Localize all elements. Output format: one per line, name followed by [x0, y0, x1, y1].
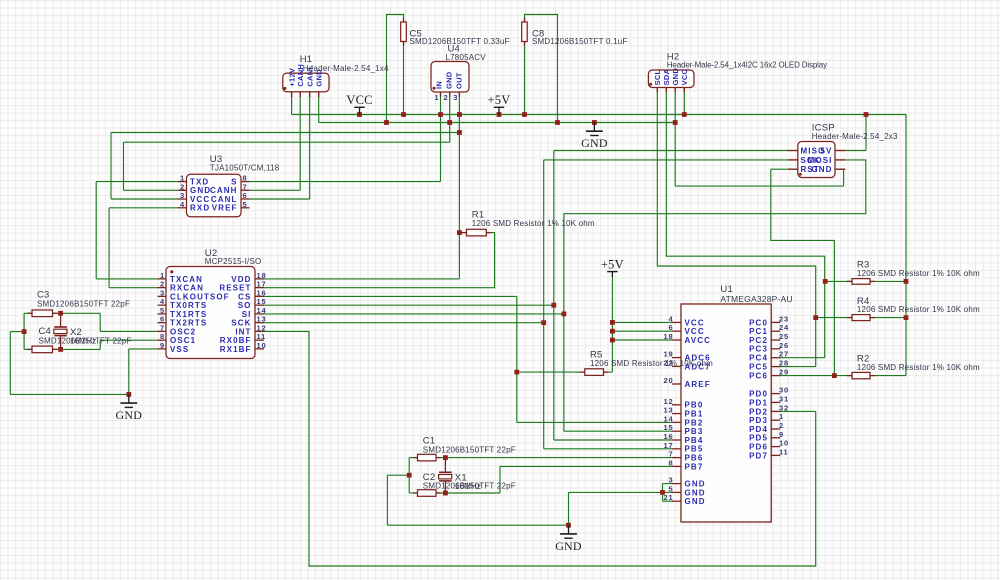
- capacitor C5: [401, 18, 407, 46]
- svg-text:12: 12: [664, 397, 674, 406]
- node H2 GND rail B: [673, 120, 678, 125]
- svg-text:15: 15: [664, 423, 674, 432]
- svg-text:26: 26: [779, 341, 789, 350]
- node SO row: [551, 303, 556, 308]
- svg-text:IN: IN: [435, 81, 444, 89]
- wire U1 GND pin tie: [663, 484, 673, 502]
- wire H2 VCC pin: [683, 92, 685, 115]
- label U4: [446, 44, 487, 63]
- svg-text:VSS: VSS: [170, 345, 189, 354]
- wire +5V stem to U1 VCC pins: [612, 276, 672, 372]
- power +5V symbol top: [488, 93, 511, 114]
- svg-text:1206 SMD Resistor 1% 10K ohm: 1206 SMD Resistor 1% 10K ohm: [857, 363, 980, 372]
- svg-text:8: 8: [669, 458, 674, 467]
- label C4: [39, 326, 132, 345]
- ground GND symbol bottom: [555, 525, 582, 553]
- svg-text:32: 32: [779, 403, 789, 412]
- svg-text:2: 2: [180, 182, 185, 191]
- svg-text:PC1: PC1: [749, 327, 768, 336]
- power +5V symbol at U1: [601, 257, 624, 277]
- wire R3 row: [825, 280, 906, 282]
- svg-text:7: 7: [243, 182, 248, 191]
- connector H1 Header-Male-2.54_1x4: [283, 64, 329, 97]
- label R5: [590, 350, 713, 369]
- node R5 left CS: [514, 370, 519, 375]
- svg-text:PB4: PB4: [685, 436, 704, 445]
- svg-text:PB5: PB5: [685, 445, 704, 454]
- svg-text:18: 18: [664, 332, 674, 341]
- svg-text:31: 31: [779, 394, 789, 403]
- svg-text:PB1: PB1: [685, 410, 704, 419]
- wire U2 SO / MISO row: [264, 304, 554, 306]
- node C8 loop rail B: [555, 120, 560, 125]
- wire X2 bottom to OSC1: [61, 340, 158, 349]
- node bottom GND: [566, 523, 571, 528]
- node C1 C2 left: [407, 473, 412, 478]
- svg-text:VCC: VCC: [680, 68, 689, 85]
- wire U2 SI / MOSI row: [264, 313, 564, 315]
- label C8: [532, 29, 627, 47]
- wire H1 CANL to U3: [250, 97, 310, 200]
- svg-text:SMD1206B150TFT 22pF: SMD1206B150TFT 22pF: [37, 299, 130, 308]
- node U4 OUT rail C: [457, 130, 462, 135]
- svg-text:3: 3: [180, 191, 185, 200]
- wire C3 right to node: [53, 312, 61, 314]
- svg-text:14: 14: [664, 414, 674, 423]
- node H2 VCC rail A: [682, 112, 687, 117]
- node C5 loop rail B: [384, 120, 389, 125]
- svg-text:19: 19: [664, 350, 674, 359]
- svg-text:30: 30: [779, 386, 789, 395]
- svg-text:TXCAN: TXCAN: [170, 275, 203, 284]
- capacitor C1: [413, 454, 441, 461]
- svg-text:PD2: PD2: [749, 407, 768, 416]
- connector H2 Header-Male-2.54_1x4 I2C OLED: [648, 68, 694, 93]
- node GND symbol rail B: [592, 120, 597, 125]
- capacitor C4: [28, 346, 58, 353]
- label H2: [667, 52, 827, 70]
- svg-text:18: 18: [257, 271, 267, 280]
- svg-text:SO: SO: [238, 301, 252, 310]
- svg-text:RX1BF: RX1BF: [220, 345, 252, 354]
- node VCC4: [610, 320, 615, 325]
- svg-text:VCC: VCC: [685, 327, 705, 336]
- svg-text:3: 3: [160, 288, 165, 297]
- svg-text:12: 12: [257, 323, 267, 332]
- svg-text:VREF: VREF: [212, 204, 238, 213]
- svg-text:23: 23: [779, 314, 789, 323]
- svg-text:15: 15: [257, 297, 267, 306]
- svg-text:TJA1050T/CM,118: TJA1050T/CM,118: [210, 163, 280, 172]
- svg-text:11: 11: [779, 447, 789, 456]
- svg-text:PD1: PD1: [749, 398, 768, 407]
- svg-text:5: 5: [669, 484, 674, 493]
- svg-text:25: 25: [779, 332, 789, 341]
- svg-text:1: 1: [180, 174, 185, 183]
- node X2 top: [58, 311, 63, 316]
- crystal X2: [54, 313, 67, 349]
- svg-text:GND: GND: [555, 539, 582, 553]
- svg-text:GND: GND: [115, 408, 142, 422]
- svg-text:RXCAN: RXCAN: [170, 284, 204, 293]
- node SCK row: [541, 320, 546, 325]
- wire H2 SCL to R4/PC5: [657, 92, 815, 367]
- node AVCC: [610, 338, 615, 343]
- wire U2 SCK row: [264, 322, 544, 324]
- svg-text:16: 16: [664, 432, 674, 441]
- wire R2 row / PC6: [780, 375, 906, 377]
- node +5V rail A: [497, 112, 502, 117]
- crystal X1: [439, 458, 452, 493]
- resistor R2: [847, 372, 875, 378]
- svg-text:CANL: CANL: [211, 195, 238, 204]
- wire U3 RXD to U2 RXCAN: [109, 208, 178, 288]
- wire R1 left stub: [459, 232, 466, 234]
- svg-text:OUT: OUT: [455, 72, 464, 89]
- svg-text:+5V: +5V: [488, 93, 511, 107]
- svg-text:TX1RTS: TX1RTS: [170, 310, 207, 319]
- svg-text:SCL: SCL: [653, 69, 662, 85]
- svg-text:+5V: +5V: [601, 257, 624, 271]
- resistor R3: [847, 279, 875, 285]
- svg-text:1206 SMD Resistor 1% 10K ohm: 1206 SMD Resistor 1% 10K ohm: [590, 359, 713, 368]
- node X1 bottom: [443, 491, 448, 496]
- svg-text:6: 6: [160, 315, 165, 324]
- svg-text:SMD1206B150TFT 22pF: SMD1206B150TFT 22pF: [423, 445, 516, 454]
- wire C8 top loop to GND rail: [525, 15, 558, 123]
- svg-text:PD6: PD6: [749, 443, 768, 452]
- svg-text:PC4: PC4: [749, 354, 768, 363]
- node R4 right: [904, 315, 909, 320]
- svg-text:CLKOUTSOF: CLKOUTSOF: [170, 292, 230, 301]
- svg-text:VDD: VDD: [231, 275, 251, 284]
- svg-text:28: 28: [779, 359, 789, 368]
- svg-text:11: 11: [257, 332, 267, 341]
- ground GND symbol top: [581, 123, 608, 151]
- label C2: [423, 472, 516, 491]
- node R3 right: [904, 279, 909, 284]
- svg-text:21: 21: [664, 493, 674, 502]
- connector ICSP Header-Male-2.54_2x3: [788, 142, 845, 178]
- label R1: [472, 210, 595, 229]
- wire H1 CANH to U3: [250, 97, 301, 191]
- svg-text:RXD: RXD: [190, 204, 210, 213]
- svg-text:GND: GND: [445, 71, 454, 89]
- svg-text:GND: GND: [685, 497, 706, 506]
- svg-text:PD5: PD5: [749, 434, 768, 443]
- svg-text:OSC1: OSC1: [170, 336, 196, 345]
- svg-text:PB3: PB3: [685, 427, 704, 436]
- svg-text:16: 16: [257, 288, 267, 297]
- capacitor C2: [413, 490, 441, 497]
- svg-text:VCC: VCC: [346, 93, 372, 107]
- node U4 GND rail B: [447, 120, 452, 125]
- node X2 bottom: [58, 347, 63, 352]
- svg-text:1: 1: [779, 412, 784, 421]
- svg-text:PD3: PD3: [749, 416, 768, 425]
- wire C8 bottom to rail A: [524, 42, 526, 115]
- wire ICSP MOSI net: [564, 160, 866, 431]
- svg-text:SDA: SDA: [662, 68, 671, 85]
- node VCC junction: [357, 112, 362, 117]
- wire GND riser to U1 GND pins: [569, 492, 663, 525]
- svg-text:16MHz: 16MHz: [455, 482, 481, 491]
- node ICSP 5V rail A: [864, 112, 869, 117]
- svg-text:1206 SMD Resistor 1% 10K ohm: 1206 SMD Resistor 1% 10K ohm: [857, 305, 980, 314]
- node R2 left: [832, 373, 837, 378]
- svg-text:6: 6: [669, 323, 674, 332]
- svg-text:PC0: PC0: [749, 318, 768, 327]
- svg-text:7: 7: [669, 450, 674, 459]
- svg-text:PB2: PB2: [685, 418, 704, 427]
- svg-text:S: S: [231, 178, 237, 187]
- label H1: [300, 54, 389, 73]
- svg-text:AVCC: AVCC: [685, 336, 711, 345]
- svg-text:27: 27: [779, 350, 789, 359]
- node C8 rail A: [522, 112, 527, 117]
- node U1 GND tie: [660, 490, 665, 495]
- label C1: [423, 436, 516, 455]
- svg-text:13: 13: [664, 406, 674, 415]
- wire X2 top to OSC2: [61, 313, 158, 331]
- svg-text:PB6: PB6: [685, 454, 704, 463]
- svg-text:SMD1206B150TFT 0.33uF: SMD1206B150TFT 0.33uF: [410, 37, 510, 46]
- svg-text:17: 17: [664, 441, 674, 450]
- svg-text:3: 3: [669, 476, 674, 485]
- svg-text:CANH: CANH: [210, 186, 238, 195]
- label R2: [857, 354, 980, 373]
- svg-text:GND: GND: [811, 165, 832, 174]
- svg-text:ATMEGA328P-AU: ATMEGA328P-AU: [720, 294, 792, 304]
- svg-text:CS: CS: [238, 292, 251, 301]
- svg-text:AREF: AREF: [685, 380, 711, 389]
- node U4 OUT rail A: [457, 112, 462, 117]
- svg-text:6: 6: [243, 191, 248, 200]
- wire C2 row to U1 PB7: [409, 466, 672, 493]
- wire GND rail B: [319, 97, 676, 123]
- svg-text:GND: GND: [671, 68, 680, 86]
- node C5 rail A: [401, 112, 406, 117]
- wire H2 GND pin / branch to ICSP GND: [675, 92, 845, 186]
- svg-text:L7805ACV: L7805ACV: [446, 53, 487, 62]
- label X1: [455, 473, 481, 492]
- svg-text:8: 8: [160, 332, 165, 341]
- svg-text:17: 17: [257, 280, 267, 289]
- svg-text:RX0BF: RX0BF: [220, 336, 252, 345]
- svg-text:Header-Male-2.54_1x4I2C 16x2 O: Header-Male-2.54_1x4I2C 16x2 OLED Displa…: [667, 60, 827, 69]
- wire U2 INT to U1 PD2: [264, 331, 816, 566]
- svg-text:1: 1: [160, 271, 165, 280]
- wire U2 VDD: [264, 278, 459, 280]
- svg-text:SMD1206B150TFT 0.1uF: SMD1206B150TFT 0.1uF: [532, 37, 627, 46]
- wire R4 row: [816, 317, 906, 319]
- label X2: [70, 327, 96, 345]
- wire ICSP RST to R2/PC6: [771, 169, 835, 375]
- wire +5V right vertical: [905, 115, 907, 376]
- node R4 left: [813, 315, 818, 320]
- node R1 left: [457, 230, 462, 235]
- wire U2 VSS to GND: [129, 349, 158, 395]
- svg-text:2: 2: [779, 421, 784, 430]
- ground GND symbol left: [115, 394, 142, 422]
- svg-text:PD4: PD4: [749, 425, 768, 434]
- svg-text:13: 13: [257, 315, 267, 324]
- svg-text:Header-Male-2.54_2x3: Header-Male-2.54_2x3: [812, 132, 898, 141]
- svg-text:VCC: VCC: [190, 195, 210, 204]
- svg-text:7: 7: [160, 323, 165, 332]
- svg-text:16MHz: 16MHz: [70, 336, 96, 345]
- wire U4 pin2 to GND rail: [449, 97, 451, 123]
- svg-text:PD7: PD7: [749, 451, 768, 460]
- capacitor C3: [28, 310, 58, 317]
- svg-text:9: 9: [160, 341, 165, 350]
- svg-text:PC2: PC2: [749, 336, 768, 345]
- capacitor C8: [522, 18, 528, 46]
- wire R1 right to U2 RESET: [264, 233, 495, 288]
- svg-text:10: 10: [257, 341, 267, 350]
- wire R5 right: [604, 371, 613, 373]
- svg-text:2: 2: [160, 280, 165, 289]
- power VCC symbol: [346, 93, 372, 114]
- svg-text:PB7: PB7: [685, 462, 704, 471]
- wire U2 CS to U1 PB2: [264, 296, 672, 422]
- svg-text:MCP2515-I/SO: MCP2515-I/SO: [205, 257, 262, 266]
- svg-text:10: 10: [779, 439, 789, 448]
- svg-text:SI: SI: [242, 310, 252, 319]
- svg-text:29: 29: [779, 368, 789, 377]
- wire C1 C2 left to GND: [387, 458, 568, 526]
- svg-text:SCK: SCK: [231, 319, 251, 328]
- resistor R4: [847, 315, 875, 321]
- regulator U4 L7805ACV: [431, 62, 469, 103]
- svg-text:TX0RTS: TX0RTS: [170, 301, 207, 310]
- svg-text:14: 14: [257, 306, 267, 315]
- svg-text:OSC2: OSC2: [170, 327, 196, 336]
- node VCC6: [610, 329, 615, 334]
- svg-text:5: 5: [243, 200, 248, 209]
- wire U3 S to VCC rail: [250, 97, 441, 182]
- IC U2 MCP2515 CAN controller: [158, 267, 267, 359]
- svg-text:INT: INT: [235, 327, 251, 336]
- label U1: [720, 284, 792, 304]
- wire C5 top loop to GND rail: [387, 15, 404, 123]
- wire C4 right to node: [53, 348, 61, 350]
- svg-text:PC5: PC5: [749, 363, 768, 372]
- svg-text:Header-Male-2.54_1x4: Header-Male-2.54_1x4: [303, 64, 389, 73]
- svg-text:VCC: VCC: [685, 318, 705, 327]
- wire ICSP 5V to rail A: [845, 115, 866, 151]
- wire U3 TXD to U2 TXCAN: [96, 182, 178, 279]
- wire C3 C4 left side to GND: [10, 313, 129, 394]
- svg-text:2: 2: [444, 93, 449, 102]
- svg-text:24: 24: [779, 323, 789, 332]
- wire +5V rail C: [111, 133, 459, 200]
- svg-text:1: 1: [434, 93, 439, 102]
- wire H2 SDA to R3/PC4: [666, 92, 824, 358]
- svg-text:GND: GND: [685, 480, 706, 489]
- svg-text:GND: GND: [685, 488, 706, 497]
- label C3: [37, 290, 130, 309]
- svg-text:9: 9: [779, 430, 784, 439]
- node U4 IN rail A: [438, 112, 443, 117]
- svg-text:8: 8: [243, 174, 248, 183]
- resistor R1: [462, 229, 492, 236]
- node R3 left: [823, 279, 828, 284]
- svg-text:5: 5: [160, 306, 165, 315]
- label R3: [857, 260, 980, 279]
- svg-text:20: 20: [664, 376, 674, 385]
- svg-text:TX2RTS: TX2RTS: [170, 319, 207, 328]
- wire ICSP MISO net: [554, 151, 788, 441]
- svg-text:1206 SMD Resistor 1% 10K ohm: 1206 SMD Resistor 1% 10K ohm: [472, 219, 595, 228]
- wire U4 OUT down to R1: [458, 97, 460, 279]
- wire C1 row to U1 PB6: [409, 457, 672, 459]
- svg-text:GND: GND: [190, 186, 211, 195]
- node X1 top: [443, 455, 448, 460]
- svg-text:TXD: TXD: [190, 178, 209, 187]
- label C5: [410, 29, 510, 47]
- svg-text:5V: 5V: [821, 146, 833, 155]
- label R4: [857, 296, 980, 314]
- svg-text:4: 4: [180, 200, 185, 209]
- wire GND branch rail D to U3: [124, 123, 450, 191]
- IC U1 ATMEGA328P-AU: [664, 304, 789, 522]
- svg-text:RESET: RESET: [219, 284, 251, 293]
- resistor R5: [580, 369, 609, 376]
- svg-text:PB0: PB0: [685, 401, 704, 410]
- svg-text:GND: GND: [581, 136, 608, 150]
- svg-text:4: 4: [669, 314, 674, 323]
- svg-text:4: 4: [160, 297, 165, 306]
- label U3: [210, 154, 280, 172]
- svg-text:1206 SMD Resistor 1% 10K ohm: 1206 SMD Resistor 1% 10K ohm: [857, 269, 980, 278]
- node VSS GND: [126, 392, 131, 397]
- label U2: [205, 248, 262, 266]
- wire R5 left to CS net: [517, 371, 585, 373]
- svg-text:PD0: PD0: [749, 390, 768, 399]
- IC U3 TJA1050T CAN transceiver: [178, 174, 250, 217]
- node C3 C4 left: [22, 329, 27, 334]
- node SI row: [562, 312, 567, 317]
- svg-text:PC3: PC3: [749, 345, 768, 354]
- wire +12V rail A (H1 pin1 to right side): [292, 97, 906, 115]
- svg-text:MOSI: MOSI: [808, 156, 833, 165]
- svg-text:PC6: PC6: [749, 372, 768, 381]
- wire ICSP SCK net: [544, 160, 788, 449]
- svg-text:3: 3: [453, 93, 458, 102]
- label ICSP: [812, 123, 898, 142]
- wire C5 bottom to rail A: [403, 42, 405, 115]
